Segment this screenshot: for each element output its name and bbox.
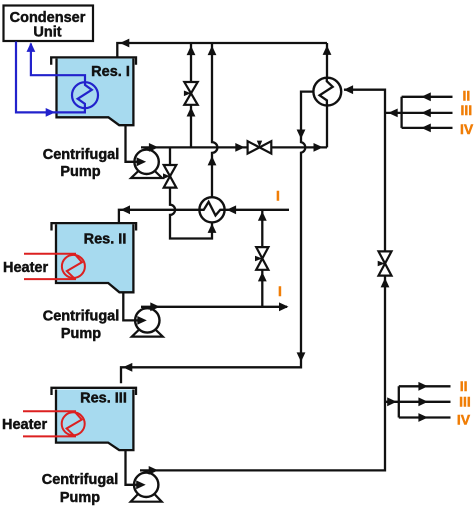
svg-text:Pump: Pump xyxy=(60,490,100,506)
svg-text:Centrifugal: Centrifugal xyxy=(43,309,120,325)
svg-text:Pump: Pump xyxy=(61,326,101,342)
svg-text:Unit: Unit xyxy=(33,25,61,41)
svg-text:II: II xyxy=(460,378,468,394)
svg-text:Heater: Heater xyxy=(3,260,48,276)
svg-text:I: I xyxy=(278,283,282,299)
svg-text:IV: IV xyxy=(460,121,474,137)
svg-text:Res. III: Res. III xyxy=(80,391,127,407)
svg-text:III: III xyxy=(459,394,471,410)
svg-text:Pump: Pump xyxy=(60,164,100,180)
svg-text:Centrifugal: Centrifugal xyxy=(42,472,119,488)
svg-text:III: III xyxy=(461,102,473,118)
svg-text:Centrifugal: Centrifugal xyxy=(43,147,120,163)
svg-text:Res. I: Res. I xyxy=(91,64,130,80)
svg-text:Res. II: Res. II xyxy=(84,232,127,248)
svg-text:IV: IV xyxy=(457,412,471,428)
svg-text:I: I xyxy=(276,188,280,204)
svg-text:Heater: Heater xyxy=(2,417,47,433)
